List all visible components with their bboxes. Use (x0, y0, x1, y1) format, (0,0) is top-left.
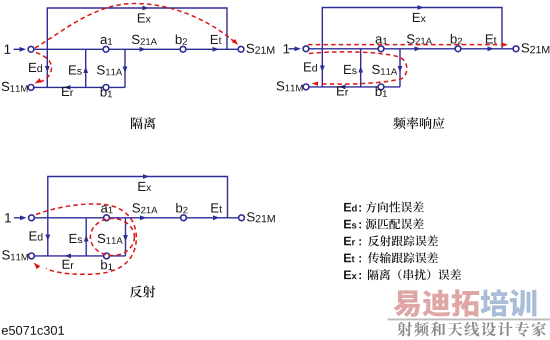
node S21M (freq-response) (513, 46, 519, 52)
wire: Ex loop top (left side, top, right side) (freq-response) (322, 8, 502, 49)
arrow on branch Et (freq-response) (488, 46, 495, 51)
wire: main line node1-a1-b2-S21M (reflection) (32, 217, 242, 219)
wire: bottom line S11M-b1 (branch Er) (reflection) (32, 255, 126, 257)
wire: Ex loop top (left side, top, right side) (reflection) (48, 177, 228, 218)
label Ex (isolation) (138, 13, 151, 22)
red dashed line: transmission path 1->S21M (freq-response) (308, 44, 501, 46)
label Et (reflection) (211, 203, 222, 212)
node a1 (isolation) (103, 46, 109, 52)
arrow on branch Ed (reflection) (45, 235, 50, 242)
legend entry Ex: 隔离（串扰）误差 (344, 271, 361, 280)
red dashed loop: source-match loop (reflection) (36, 204, 136, 274)
watermark logo 培训 (blue) (481, 289, 537, 317)
node S11M (reflection) (29, 253, 35, 259)
node b1 (isolation) (103, 85, 109, 91)
label 1 (reflection) (5, 213, 11, 222)
caption 反射 (130, 286, 155, 298)
label S21A (isolation) (132, 35, 157, 45)
branch S11A: wire a1 down to b1 (freq-response) (399, 49, 401, 87)
branch Ed: wire down to S11M (isolation) (46, 49, 48, 87)
legend entry Ed: 方向性误差 (344, 203, 361, 212)
arrow on branch Ed (isolation) (45, 66, 50, 73)
label S11A (freq-response) (372, 65, 397, 75)
watermark logo 易迪拓 (pink) (393, 289, 479, 317)
wire: main line node1-a1-b2-S21M (isolation) (31, 48, 241, 50)
red dashed ellipse around S11A (reflection) (90, 219, 134, 256)
label S21M (reflection) (247, 212, 275, 222)
caption 频率响应 (393, 117, 444, 129)
label b1 (isolation) (101, 87, 112, 97)
label Es (isolation) (69, 65, 82, 74)
branch S11A: wire a1 down to b1 (isolation) (124, 49, 126, 87)
arrow on branch Es (reflection) (84, 235, 89, 242)
label b2 (isolation) (176, 34, 187, 44)
branch Es: wire b1 level up to main (isolation) (85, 49, 87, 87)
label S11M (reflection) (2, 250, 28, 260)
red dashed path: Ex isolation path node1 to S21M (isolation) (35, 4, 234, 49)
branch Ed: wire down to S11M (freq-response) (321, 49, 323, 87)
node b1 (freq-response) (378, 84, 384, 90)
arrow on branch S21A (reflection) (140, 215, 147, 220)
label Ed (freq-response) (304, 62, 317, 71)
arrow on branch Ex (freq-response) (418, 5, 425, 10)
red arrowhead at S11M (reflection) (34, 263, 41, 270)
red arrowhead at S11M (isolation) (35, 78, 42, 84)
arrow on branch Er (reflection) (65, 254, 72, 259)
node b2 (reflection) (181, 215, 187, 221)
node S21M (reflection) (239, 215, 245, 221)
arrow on branch Ed (freq-response) (320, 66, 325, 73)
red arrowhead at S11M (freq-response) (312, 82, 318, 86)
label Es (reflection) (70, 234, 83, 243)
label Ex (reflection) (138, 182, 151, 191)
label S21M (freq-response) (522, 43, 550, 53)
watermark underline (388, 319, 550, 321)
node 1 (stimulus) input arrow (freq-response) (289, 48, 297, 50)
node b1 (reflection) (104, 253, 110, 259)
label 1 (freq-response) (284, 44, 290, 53)
label b1 (reflection) (101, 260, 112, 270)
label S11M (isolation) (2, 82, 28, 92)
wire: main line node1-a1-b2-S21M (freq-response) (306, 48, 516, 50)
label 1 (isolation) (5, 45, 11, 54)
branch S11A: wire a1 down to b1 (reflection) (125, 218, 127, 256)
watermark subtitle 射频和天线设计专家 (397, 322, 546, 337)
node 1 (stimulus) input arrow (reflection) (14, 217, 22, 219)
red dashed path: Ed path node1 to S11M (isolation) (36, 53, 52, 83)
label a1 (reflection) (101, 205, 113, 213)
arrow on branch Ex (reflection) (143, 174, 150, 179)
arrow on branch Er (isolation) (64, 85, 71, 90)
label Er (reflection) (63, 260, 74, 269)
label Er (freq-response) (337, 86, 348, 95)
arrow on branch S11A (isolation) (123, 67, 128, 74)
wire: Ex loop top (left side, top, right side) (isolation) (47, 8, 227, 49)
branch Ed: wire down to S11M (reflection) (47, 218, 49, 256)
arrow on branch S11A (reflection) (123, 235, 128, 242)
wire: bottom line S11M-b1 (branch Er) (isolation) (31, 86, 125, 88)
arrow on branch Et (reflection) (213, 215, 220, 220)
wire: bottom line S11M-b1 (branch Er) (freq-response) (306, 86, 400, 88)
node a1 (freq-response) (378, 46, 384, 52)
legend entry Er: 反射跟踪误差 (344, 237, 361, 246)
label S21A (freq-response) (407, 34, 432, 44)
node stimulus (isolation) (28, 46, 34, 52)
label Es (freq-response) (344, 65, 357, 74)
label Et (isolation) (211, 35, 222, 44)
label S11M (freq-response) (277, 81, 303, 91)
label Ex (freq-response) (413, 13, 426, 22)
label b2 (freq-response) (451, 34, 462, 44)
label b2 (reflection) (176, 203, 187, 213)
node 1 (stimulus) input arrow (isolation) (14, 48, 22, 50)
branch Es: wire b1 level up to main (reflection) (85, 218, 87, 256)
node S11M (isolation) (28, 85, 34, 91)
legend entry Es: 源匹配误差 (344, 220, 361, 229)
label Ed (isolation) (29, 63, 42, 72)
label a1 (freq-response) (376, 36, 388, 44)
document id e5071c301 (2, 326, 64, 335)
arrow on branch S11A (freq-response) (398, 66, 403, 73)
label S21A (reflection) (132, 203, 157, 213)
label S11A (reflection) (98, 234, 123, 244)
label a1 (isolation) (101, 37, 113, 45)
branch Es: wire b1 level up to main (freq-response) (360, 49, 362, 87)
node b2 (isolation) (180, 46, 186, 52)
arrow on branch Es (isolation) (83, 67, 88, 74)
label S11A (isolation) (97, 65, 122, 75)
label Er (isolation) (62, 87, 73, 96)
red arrowhead transmission (freq-response) (502, 43, 508, 47)
arrow on branch Et (isolation) (213, 47, 220, 52)
legend entry Et: 传输跟踪误差 (344, 254, 361, 263)
red arrowhead at S21M (isolation) (232, 39, 238, 45)
node b2 (freq-response) (455, 46, 461, 52)
label Et (freq-response) (486, 34, 497, 43)
caption 隔离 (131, 117, 155, 129)
node stimulus (freq-response) (303, 46, 309, 52)
arrow on branch Er (freq-response) (339, 85, 346, 90)
red dashed loop: reflection path (freq-response) (309, 52, 407, 84)
node S11M (freq-response) (303, 84, 309, 90)
label S21M (isolation) (247, 44, 275, 54)
label b1 (freq-response) (376, 86, 387, 96)
node S21M (isolation) (238, 46, 244, 52)
arrow on branch S21A (isolation) (140, 47, 147, 52)
arrow on branch Es (freq-response) (358, 66, 363, 73)
node stimulus (reflection) (29, 215, 35, 221)
arrow on branch S21A (freq-response) (415, 46, 422, 51)
arrow on branch Ex (isolation) (143, 6, 150, 11)
label Ed (reflection) (30, 231, 43, 240)
node a1 (reflection) (104, 215, 110, 221)
